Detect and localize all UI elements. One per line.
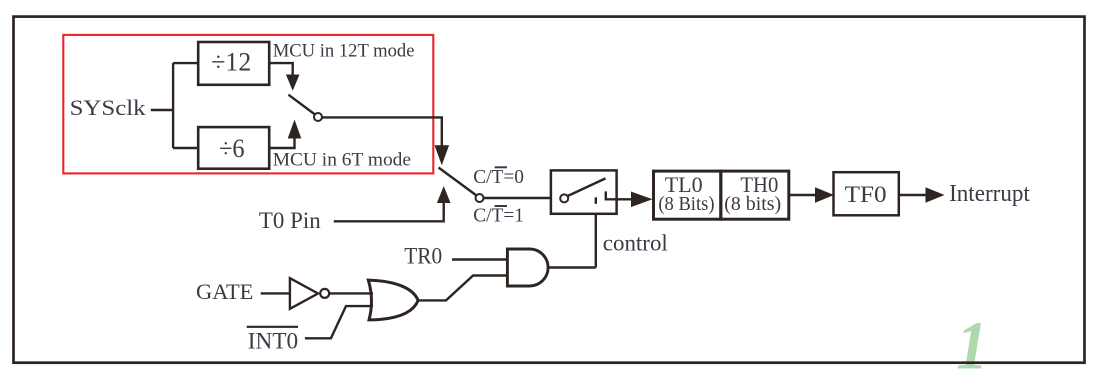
wire TF0 to Interrupt (arrow): [899, 194, 927, 196]
wire /12 output to switch (arrow down): [269, 63, 293, 75]
wire control line (vertical): [595, 214, 597, 268]
switch lever (C/T selector): [439, 168, 477, 196]
red highlight rectangle: [63, 35, 433, 174]
overline for T (C/T=0): [495, 166, 507, 168]
wire inverter to OR gate: [330, 292, 373, 294]
wire TH0 to TF0 (arrow): [789, 194, 816, 196]
wire AND output to control line: [548, 266, 596, 268]
wire GATE to inverter: [261, 292, 290, 294]
wire switch to C/T selector: [322, 117, 442, 146]
divider box /12: [198, 42, 269, 85]
inverter bubble: [320, 289, 329, 298]
svg-text:TF0: TF0: [845, 182, 887, 207]
AND gate: [507, 249, 548, 286]
wire OR output to AND gate: [418, 276, 507, 301]
wire control box to TL0 (arrow): [617, 198, 632, 200]
svg-text:T0 Pin: T0 Pin: [259, 208, 321, 233]
wire C/T switch to control box: [484, 197, 551, 199]
overline for INT0: [247, 326, 298, 328]
svg-text:C/T=1: C/T=1: [473, 205, 524, 227]
svg-text:÷12: ÷12: [211, 47, 251, 77]
control switch contact tick: [595, 197, 597, 204]
svg-text:(8 Bits): (8 Bits): [658, 193, 714, 215]
OR gate: [368, 280, 418, 320]
divider box /6: [198, 127, 269, 169]
control switch lever: [568, 178, 606, 196]
inverter (NOT gate): [290, 278, 318, 309]
svg-text:÷6: ÷6: [219, 133, 245, 163]
wire INT0 to OR gate: [305, 306, 373, 338]
svg-text:C/T=0: C/T=0: [473, 166, 524, 188]
svg-text:(8 bits): (8 bits): [724, 193, 781, 215]
wire SYSclk to divider branch: [151, 63, 198, 148]
svg-text:MCU in 12T mode: MCU in 12T mode: [273, 40, 415, 61]
wire TR0 to AND gate: [452, 258, 507, 260]
svg-text:SYSclk: SYSclk: [70, 95, 147, 120]
svg-text:TR0: TR0: [404, 244, 442, 269]
flag box TF0: [834, 172, 899, 215]
svg-text:1: 1: [956, 308, 988, 384]
control switch box: [551, 170, 617, 213]
wire /6 output to switch (arrow up): [269, 138, 294, 149]
svg-text:MCU in 6T mode: MCU in 6T mode: [273, 150, 411, 171]
control switch output contact: [606, 191, 617, 199]
register box TL0: [654, 171, 721, 219]
wire T0 Pin (arrow up): [334, 202, 444, 221]
switch lever (12T/6T selector): [288, 95, 315, 115]
overline for T (C/T=1): [495, 205, 507, 207]
svg-text:GATE: GATE: [196, 279, 253, 304]
switch pivot circle: [314, 113, 322, 121]
svg-text:control: control: [603, 231, 668, 256]
control switch pivot circle: [560, 194, 568, 202]
svg-text:Interrupt: Interrupt: [949, 181, 1030, 207]
svg-text:INT0: INT0: [248, 329, 298, 354]
register box TH0: [721, 171, 789, 219]
switch pivot circle: [476, 194, 484, 202]
